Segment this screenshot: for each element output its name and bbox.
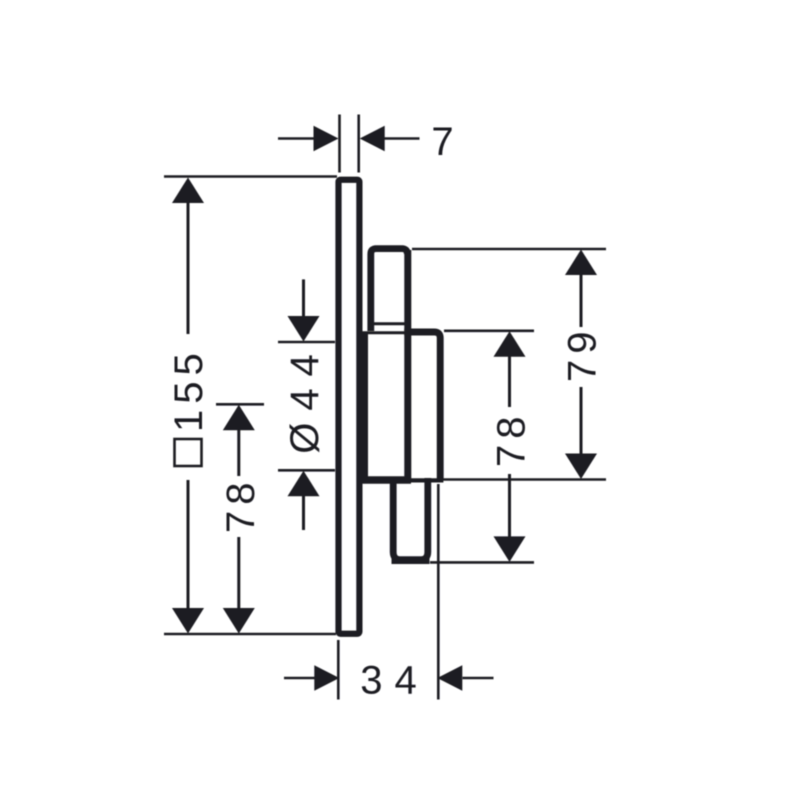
dim 34: right leader [463, 677, 494, 680]
dim d44: lower leader [302, 495, 305, 530]
arrow dim7 right-pointing [314, 126, 339, 152]
svg-text:Ø44: Ø44 [283, 342, 327, 454]
arrow 34 right-pointing [314, 665, 339, 691]
arrow 79 up [565, 250, 597, 276]
arrow 79 down [565, 454, 597, 480]
svg-text:78: 78 [490, 411, 534, 468]
dim 155: top extension line [164, 175, 337, 178]
handle H1 right edge / internal line [404, 250, 411, 480]
arrow 78R up [494, 331, 526, 357]
dim d44: upper leader [302, 279, 305, 318]
handle H2 bottom thin edge [411, 478, 443, 482]
handle H2 top thin edge [362, 331, 407, 334]
dim 7: right leader [385, 137, 420, 140]
handle H3 bottom edge emphasis [392, 556, 430, 564]
arrow d44 down [288, 316, 320, 342]
arrow 34 left-pointing [437, 665, 462, 691]
svg-text:79: 79 [561, 326, 605, 383]
svg-text:7: 7 [431, 120, 453, 164]
arrow dim7 left-pointing [360, 126, 385, 152]
handle H1 top knob outline [371, 249, 408, 331]
arrow 78L up [223, 405, 255, 431]
dim 78 left: dimension line [237, 428, 240, 610]
arrow 78L down [223, 608, 255, 634]
dim 34: right extension line [437, 484, 440, 700]
dim 34: left leader [284, 677, 315, 680]
arrow 155 down [172, 608, 204, 634]
arrow 155 up [172, 178, 204, 204]
handle H1 bottom thin edge [369, 322, 408, 325]
handle H3 bottom knob outline [393, 478, 428, 560]
dim 7: right extension line [357, 115, 360, 173]
dim 79: top extension line [412, 248, 606, 251]
handle H2 top thick edge + front edge [404, 332, 440, 480]
dim 78 right: top extension line [444, 329, 534, 332]
dim 78 right: dimension line [508, 356, 511, 539]
dim 155: bottom extension line [164, 633, 336, 636]
dim 78 right: bottom extension line [430, 561, 534, 564]
dim 7: left extension line [338, 115, 341, 173]
dim d44: bottom extension line [278, 469, 335, 472]
wall plate (side profile, 155x7) [339, 180, 360, 634]
dim 155: dimension line [187, 202, 190, 609]
arrow d44 up [288, 471, 320, 497]
handle H2 bottom thick edge [362, 476, 411, 484]
dim 7: left leader [278, 137, 315, 140]
label square 155 [167, 347, 211, 466]
svg-text:34: 34 [360, 659, 429, 703]
dim 78 left: top tick [216, 403, 264, 406]
dim 34: left extension line [337, 640, 340, 700]
svg-text:155: 155 [167, 347, 211, 432]
svg-text:78: 78 [219, 477, 263, 534]
dim 79: bottom extension line [441, 478, 606, 481]
handle H2 middle knob back edge [362, 333, 368, 480]
arrow 78R down [494, 536, 526, 562]
dim 79: dimension line [580, 274, 583, 456]
dim d44: top extension line [278, 341, 335, 344]
